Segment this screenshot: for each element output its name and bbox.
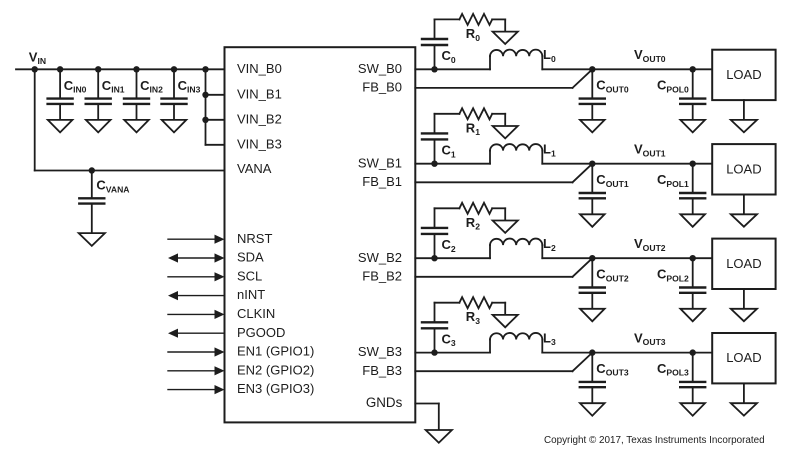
svg-text:L0: L0 — [543, 47, 556, 64]
svg-text:COUT3: COUT3 — [596, 361, 629, 378]
svg-text:EN3 (GPIO3): EN3 (GPIO3) — [237, 381, 314, 396]
svg-text:CVANA: CVANA — [96, 178, 129, 195]
svg-text:CPOL0: CPOL0 — [657, 78, 689, 95]
svg-text:VIN: VIN — [29, 49, 46, 66]
svg-text:R3: R3 — [466, 309, 480, 326]
svg-text:SW_B3: SW_B3 — [358, 344, 402, 359]
svg-text:R2: R2 — [466, 215, 480, 232]
svg-text:VIN_B0: VIN_B0 — [237, 61, 282, 76]
svg-text:CIN2: CIN2 — [140, 78, 163, 95]
svg-text:CLKIN: CLKIN — [237, 306, 275, 321]
svg-text:COUT1: COUT1 — [596, 172, 629, 189]
svg-text:L2: L2 — [543, 236, 556, 253]
svg-text:SW_B0: SW_B0 — [358, 61, 402, 76]
svg-text:FB_B1: FB_B1 — [362, 174, 402, 189]
svg-text:SCL: SCL — [237, 268, 262, 283]
svg-text:CPOL3: CPOL3 — [657, 361, 689, 378]
svg-text:GNDs: GNDs — [366, 395, 403, 410]
svg-text:LOAD: LOAD — [726, 256, 761, 271]
svg-text:CIN3: CIN3 — [178, 78, 201, 95]
svg-text:R0: R0 — [466, 26, 480, 43]
svg-text:EN2 (GPIO2): EN2 (GPIO2) — [237, 362, 314, 377]
svg-text:FB_B2: FB_B2 — [362, 268, 402, 283]
svg-text:LOAD: LOAD — [726, 161, 761, 176]
svg-text:CPOL2: CPOL2 — [657, 266, 689, 283]
svg-text:VOUT3: VOUT3 — [634, 330, 666, 347]
svg-text:LOAD: LOAD — [726, 67, 761, 82]
svg-text:VIN_B3: VIN_B3 — [237, 136, 282, 151]
svg-text:C0: C0 — [442, 48, 456, 65]
svg-text:C3: C3 — [442, 331, 456, 348]
svg-text:EN1 (GPIO1): EN1 (GPIO1) — [237, 344, 314, 359]
svg-text:C2: C2 — [442, 237, 456, 254]
svg-text:VOUT0: VOUT0 — [634, 47, 666, 64]
svg-text:VOUT1: VOUT1 — [634, 141, 666, 158]
svg-text:VIN_B2: VIN_B2 — [237, 111, 282, 126]
svg-text:COUT2: COUT2 — [596, 266, 629, 283]
svg-text:SDA: SDA — [237, 250, 264, 265]
svg-text:CIN0: CIN0 — [64, 78, 87, 95]
svg-text:NRST: NRST — [237, 231, 272, 246]
svg-text:R1: R1 — [466, 120, 480, 137]
svg-text:FB_B3: FB_B3 — [362, 363, 402, 378]
svg-text:CIN1: CIN1 — [102, 78, 125, 95]
svg-text:SW_B2: SW_B2 — [358, 250, 402, 265]
svg-text:L1: L1 — [543, 141, 556, 158]
svg-text:Copyright © 2017, Texas Instru: Copyright © 2017, Texas Instruments Inco… — [544, 435, 765, 446]
svg-text:CPOL1: CPOL1 — [657, 172, 689, 189]
svg-text:COUT0: COUT0 — [596, 78, 629, 95]
svg-text:VIN_B1: VIN_B1 — [237, 86, 282, 101]
svg-text:C1: C1 — [442, 142, 456, 159]
svg-text:SW_B1: SW_B1 — [358, 155, 402, 170]
svg-text:nINT: nINT — [237, 287, 265, 302]
svg-text:L3: L3 — [543, 330, 556, 347]
svg-text:VOUT2: VOUT2 — [634, 236, 666, 253]
svg-text:LOAD: LOAD — [726, 350, 761, 365]
svg-text:FB_B0: FB_B0 — [362, 80, 402, 95]
svg-text:VANA: VANA — [237, 161, 272, 176]
svg-text:PGOOD: PGOOD — [237, 325, 285, 340]
